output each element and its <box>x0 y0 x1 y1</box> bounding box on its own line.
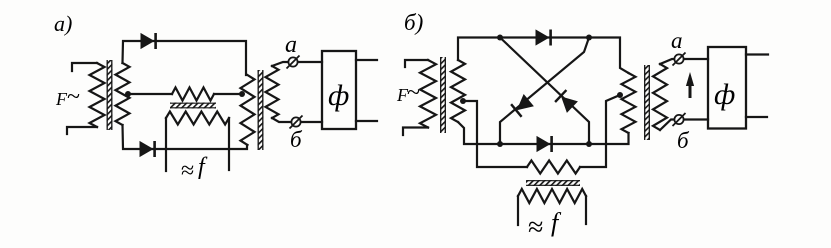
transformer T2 core (circuit a) <box>258 70 264 150</box>
node: T4 primary centre tap (circuit b) <box>617 92 623 98</box>
wire: T2 secondary top lead to terminal a (circuit a) <box>272 62 322 66</box>
transformer T1 secondary winding (circuit a) <box>116 63 130 125</box>
svg-text:~: ~ <box>67 84 80 110</box>
filter box F (circuit a) <box>322 51 356 129</box>
svg-text:б: б <box>677 128 690 153</box>
svg-text:а: а <box>285 32 297 58</box>
svg-text:ф: ф <box>714 78 735 111</box>
transformer T3 core (circuit b) <box>440 57 446 133</box>
svg-text:а): а) <box>54 11 72 36</box>
wire: output top (circuit b) <box>746 53 768 55</box>
wire: T3 primary bottom lead (circuit b) <box>403 128 428 136</box>
wire: ring top conductor (circuit b) <box>458 38 629 74</box>
wire: T1 primary bottom lead (circuit a) <box>67 127 97 134</box>
inductor L1: upper winding of feed transformer (circuit a) <box>172 88 214 101</box>
node: T3 secondary centre tap (circuit b) <box>460 98 466 104</box>
svg-text:~: ~ <box>407 80 420 106</box>
svg-text:б: б <box>290 127 303 152</box>
node: ring bottom-right junction (circuit b) <box>586 141 592 147</box>
svg-text:≈: ≈ <box>181 158 194 184</box>
svg-text:ф: ф <box>328 79 349 112</box>
terminal a (circuit b) <box>674 54 683 63</box>
transformer T2 secondary winding (circuit a) <box>266 66 279 118</box>
node: ring top-right junction (circuit b) <box>586 35 592 41</box>
transformer T4 primary winding (circuit b) <box>622 73 636 133</box>
svg-text:f: f <box>551 208 562 237</box>
node: T1 secondary centre tap (circuit a) <box>125 91 131 97</box>
arrow: output voltage indicator between terminals (circuit b) <box>689 84 692 98</box>
filter box F (circuit b) <box>708 47 746 129</box>
diode VD5 on diagonal, pointing up-left (circuit b) <box>562 97 577 112</box>
terminal b (circuit a) <box>291 117 300 126</box>
transformer T4 core (circuit b) <box>644 65 650 140</box>
wire: output top (circuit a) <box>356 59 377 61</box>
transformer T1 core (circuit a) <box>107 60 113 130</box>
diode VD6 on diagonal, pointing down-left (circuit b) <box>518 95 533 110</box>
wire: L2 right terminal stub (circuit a) <box>228 118 230 170</box>
wire: T4 secondary bottom lead to terminal b (circuit b) <box>660 120 708 131</box>
wire: top conductor from T1 secondary to VD1 and T2 (circuit a) <box>123 41 247 75</box>
node: ring bottom-left junction (circuit b) <box>497 141 503 147</box>
wire: T4 tap to feed winding (circuit b) <box>580 95 620 167</box>
wire: middle conductor carrying L1 winding (circuit a) <box>128 93 242 95</box>
diode VD1 (top, circuit a) <box>141 34 154 48</box>
svg-text:f: f <box>198 154 208 180</box>
wire: output bottom (circuit a) <box>356 120 377 122</box>
inductor L3: upper winding of feed transformer (circuit b) <box>527 161 580 174</box>
diode VD2 (bottom, circuit a) <box>140 142 153 156</box>
transformer T3 primary winding (circuit b) <box>420 60 436 128</box>
diode VD3 (top of ring, circuit b) <box>536 30 549 44</box>
wire: L2 left terminal stub (circuit a) <box>165 118 167 171</box>
transformer T3 secondary winding (circuit b) <box>451 60 465 122</box>
feed transformer core (circuit b) <box>526 180 580 186</box>
feed transformer core (circuit a) <box>170 103 216 109</box>
wire: L4 right terminal stub (circuit b) <box>585 196 587 224</box>
wire: L4 left terminal stub (circuit b) <box>517 196 519 225</box>
svg-text:а: а <box>671 28 683 53</box>
terminal b (circuit b) <box>674 115 683 124</box>
inductor L4: lower winding ~f (circuit b) <box>518 189 586 203</box>
transformer T4 secondary winding (circuit b) <box>653 64 667 130</box>
inductor L2: lower winding ~f (circuit a) <box>166 112 229 125</box>
transformer T1 primary winding (circuit a) <box>90 63 105 127</box>
wire: T3 tap to feed winding (circuit b) <box>463 101 527 167</box>
node: ring top-left junction (circuit b) <box>497 35 503 41</box>
wire: output bottom (circuit b) <box>746 116 767 118</box>
wire: ring bottom conductor (circuit b) <box>458 122 629 144</box>
wire: T4 secondary top lead to terminal a (circuit b) <box>660 59 708 64</box>
svg-text:б): б) <box>404 10 423 35</box>
wire: T3 primary top lead (circuit b) <box>405 60 428 67</box>
wire: ring diagonal from top-right to bottom-left (circuit b) <box>500 38 589 145</box>
wire: T1 primary top lead (circuit a) <box>72 63 97 71</box>
wire: ring diagonal from top-left to bottom-right (circuit b) <box>500 38 589 145</box>
wire: T2 secondary bottom lead to terminal b (circuit a) <box>272 118 322 122</box>
node: junction middle wire to T2 primary (circuit a) <box>239 91 245 97</box>
terminal a (circuit a) <box>288 57 297 66</box>
svg-text:≈: ≈ <box>528 212 543 243</box>
diode VD4 (bottom of ring, circuit b) <box>537 137 550 151</box>
wire: bottom conductor from T1 secondary through VD2 to T2 (circuit a) <box>123 125 248 149</box>
transformer T2 primary winding (circuit a) <box>241 75 255 145</box>
